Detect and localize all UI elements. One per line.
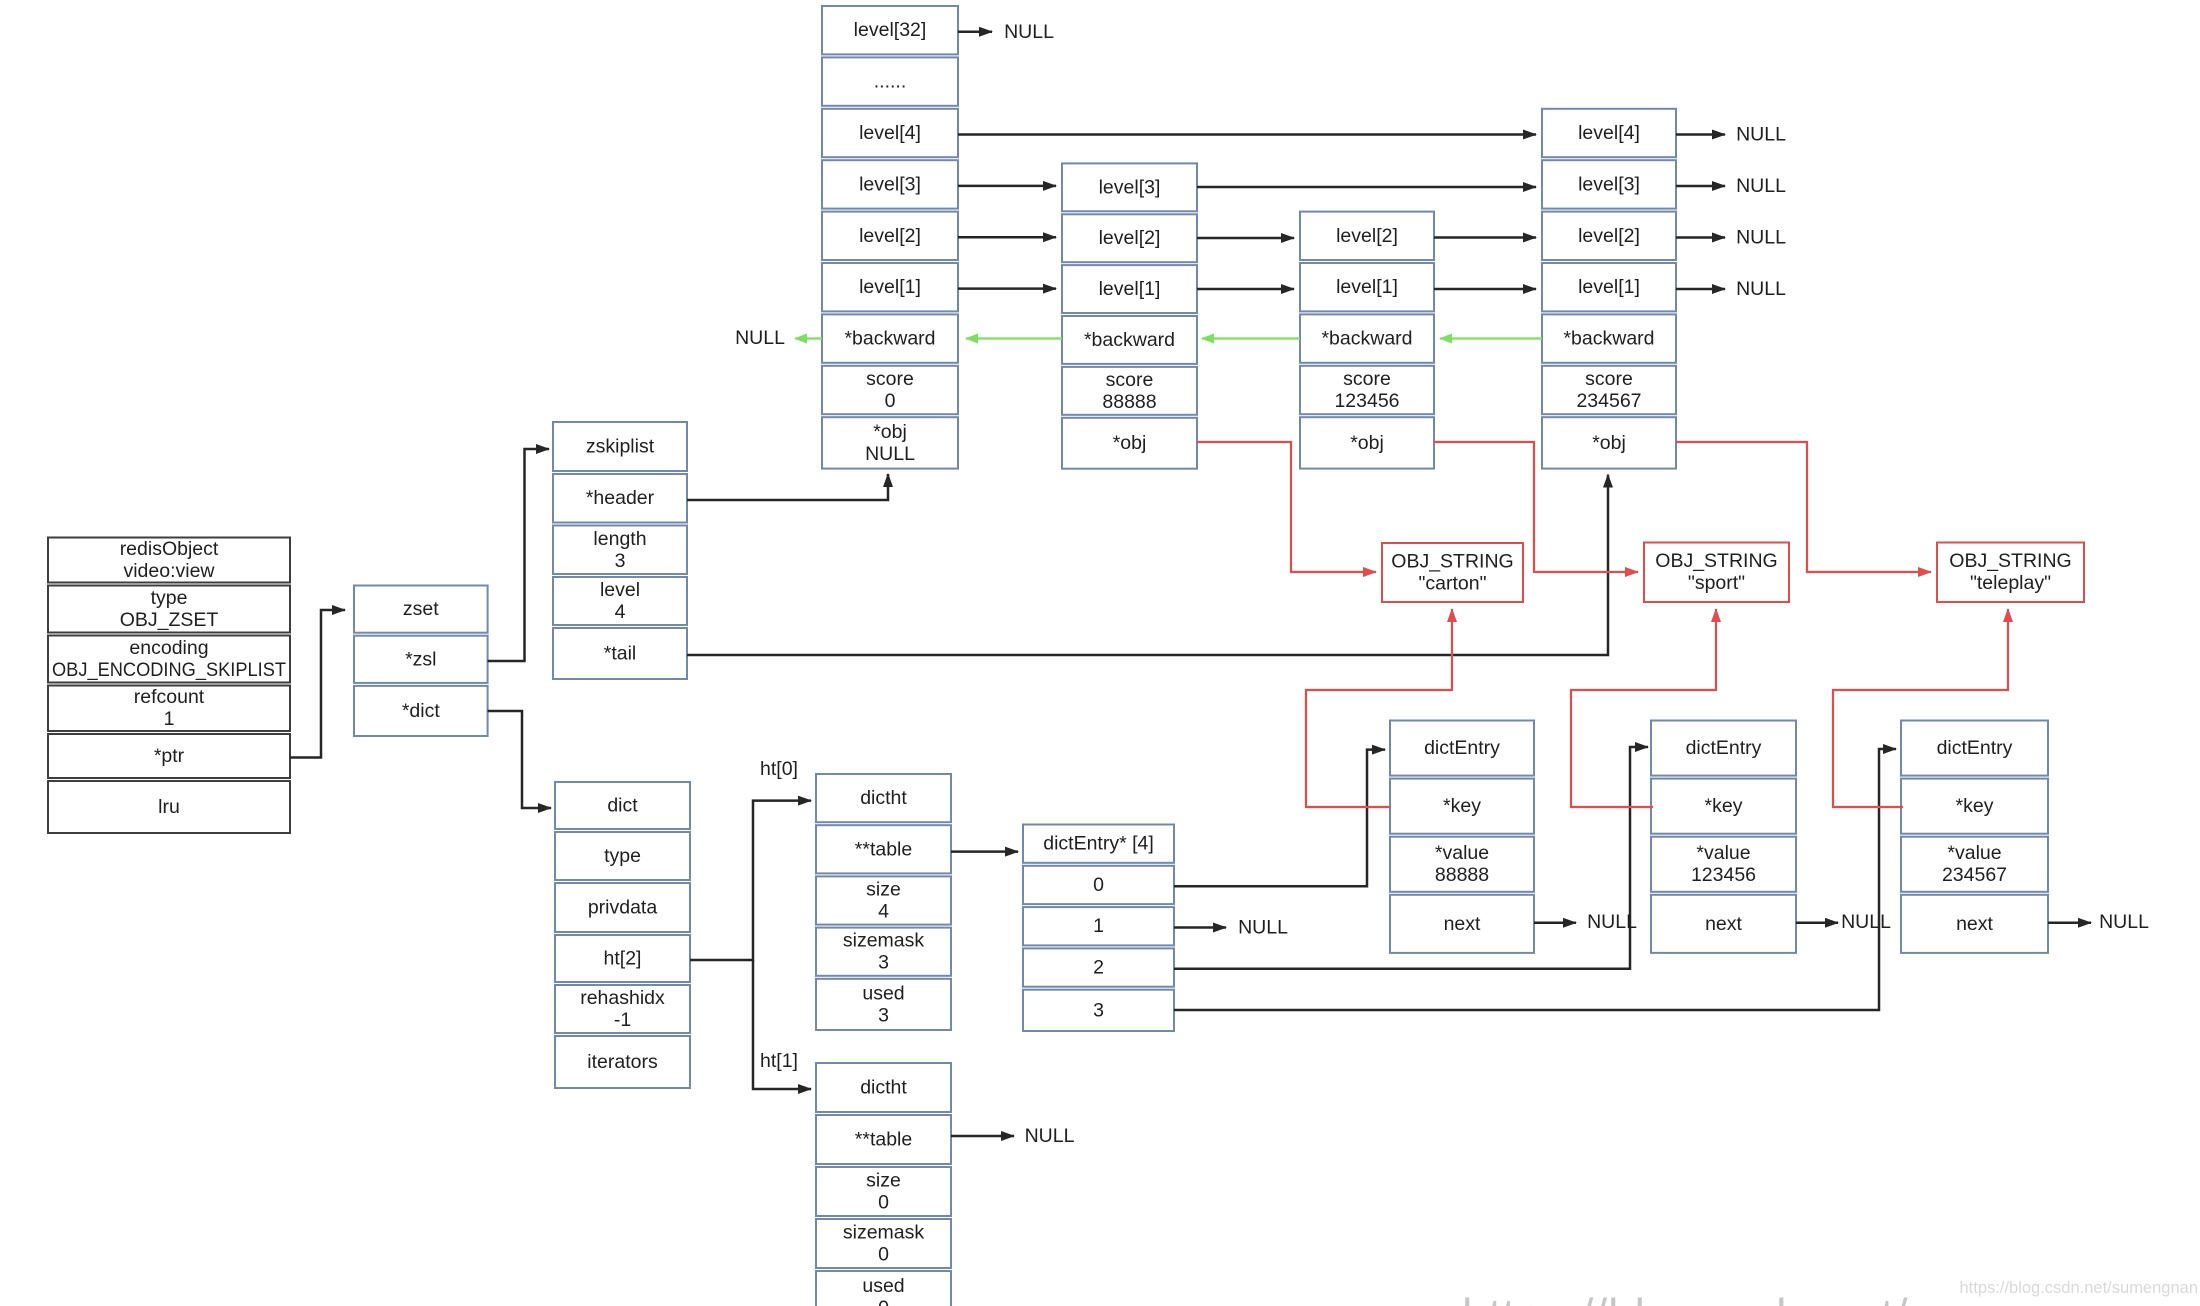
svg-text:zset: zset <box>403 598 439 620</box>
svg-text:OBJ_ZSET: OBJ_ZSET <box>120 609 219 631</box>
dictEntry node 234567 <box>1901 721 2048 953</box>
OBJ_STRING "sport" <box>1644 543 1789 603</box>
OBJ_STRING "carton" <box>1382 543 1523 602</box>
svg-text:*backward: *backward <box>844 328 935 350</box>
wire ht[2] to dictht ht[1] <box>753 960 811 1089</box>
svg-text:level[2]: level[2] <box>859 225 921 247</box>
skiplist node score 234567 <box>1542 109 1676 469</box>
svg-text:level[3]: level[3] <box>1578 173 1640 195</box>
svg-text:**table: **table <box>855 1129 912 1151</box>
svg-text:used: used <box>862 982 904 1004</box>
wire node 88888 level[3] to node 234567 <box>1197 186 1536 189</box>
svg-text:NULL: NULL <box>735 327 785 349</box>
svg-text:3: 3 <box>878 952 889 974</box>
svg-text:"teleplay": "teleplay" <box>1970 572 2051 594</box>
svg-text:https://blog.csdn.net/sumengna: https://blog.csdn.net/sumengnan <box>1462 1289 2158 1306</box>
svg-text:NULL: NULL <box>1025 1125 1075 1147</box>
red wire node 234567 *obj to teleplay <box>1676 442 1931 572</box>
svg-text:rehashidx: rehashidx <box>580 987 665 1009</box>
svg-text:*dict: *dict <box>402 700 441 722</box>
wire bucket 0 to dictEntry 88888 <box>1174 750 1385 887</box>
svg-text:type: type <box>151 587 188 609</box>
svg-text:*obj: *obj <box>1113 432 1147 454</box>
svg-text:level[1]: level[1] <box>1578 276 1640 298</box>
OBJ_STRING "teleplay" <box>1937 543 2084 603</box>
svg-text:4: 4 <box>878 901 889 923</box>
svg-text:dictht: dictht <box>860 1077 907 1099</box>
svg-text:123456: 123456 <box>1334 390 1399 412</box>
wire node 234567 level[3] to NULL <box>1676 185 1725 188</box>
svg-text:"carton": "carton" <box>1418 573 1486 595</box>
red wire dictEntry 88888 *key to carton <box>1306 609 1452 807</box>
svg-text:NULL: NULL <box>2099 911 2149 933</box>
svg-text:*value: *value <box>1947 842 2001 864</box>
green wire header *backward to NULL <box>795 337 822 339</box>
svg-text:*obj: *obj <box>873 421 907 443</box>
wire bucket 1 to NULL <box>1174 926 1226 929</box>
svg-text:score: score <box>1106 369 1154 391</box>
wire next 88888 to NULL <box>1534 922 1576 925</box>
svg-text:dictEntry: dictEntry <box>1937 737 2013 759</box>
svg-text:score: score <box>1585 368 1633 390</box>
wire *zsl to zskiplist <box>488 449 549 661</box>
svg-text:NULL: NULL <box>1736 175 1786 197</box>
struct dict <box>555 782 690 1088</box>
svg-text:iterators: iterators <box>587 1051 658 1073</box>
svg-text:NULL: NULL <box>1736 124 1786 146</box>
svg-text:0: 0 <box>878 1192 889 1214</box>
red wire dictEntry 234567 *key to teleplay <box>1833 609 2008 807</box>
svg-text:88888: 88888 <box>1435 864 1489 886</box>
svg-text:0: 0 <box>885 390 896 412</box>
svg-text:**table: **table <box>855 838 912 860</box>
green wire node 123456 *backward to node 88888 <box>1202 337 1300 339</box>
svg-text:level[3]: level[3] <box>859 173 921 195</box>
svg-text:......: ...... <box>874 71 907 93</box>
skiplist header node <box>822 6 958 469</box>
svg-text:level[3]: level[3] <box>1099 176 1161 198</box>
svg-text:*tail: *tail <box>604 643 637 665</box>
svg-text:NULL: NULL <box>865 443 915 465</box>
svg-text:*backward: *backward <box>1084 329 1175 351</box>
wire ht[2] to dictht ht[0] <box>690 801 811 960</box>
wire *header to header node <box>687 474 888 500</box>
svg-text:0: 0 <box>1093 874 1104 896</box>
skiplist node score 88888 <box>1062 163 1197 468</box>
svg-text:level[2]: level[2] <box>1578 225 1640 247</box>
svg-text:234567: 234567 <box>1942 864 2007 886</box>
svg-text:*backward: *backward <box>1321 328 1412 350</box>
svg-text:*value: *value <box>1435 842 1489 864</box>
wire **table ht[1] to NULL <box>951 1135 1014 1138</box>
svg-text:used: used <box>862 1275 904 1297</box>
svg-text:level[4]: level[4] <box>1578 122 1640 144</box>
svg-text:ht[0]: ht[0] <box>760 758 798 780</box>
wire next 234567 to NULL <box>2048 922 2091 925</box>
struct redisObject (video:view) <box>48 538 290 834</box>
svg-text:score: score <box>866 368 914 390</box>
wire node 123456 level[2] to node 234567 <box>1434 236 1536 239</box>
wire *dict to dict <box>488 711 551 808</box>
green wire node 88888 *backward to header <box>966 337 1062 339</box>
svg-text:NULL: NULL <box>1736 227 1786 249</box>
svg-text:*zsl: *zsl <box>405 648 436 670</box>
wire bucket 3 to dictEntry 234567 <box>1174 749 1896 1010</box>
svg-text:*value: *value <box>1696 842 1750 864</box>
svg-text:*ptr: *ptr <box>154 745 185 767</box>
svg-text:dictEntry: dictEntry <box>1686 737 1762 759</box>
svg-text:size: size <box>866 879 901 901</box>
svg-text:*header: *header <box>586 487 655 509</box>
wire level[32] to NULL <box>958 30 992 33</box>
svg-text:*obj: *obj <box>1350 432 1384 454</box>
svg-text:3: 3 <box>878 1004 889 1026</box>
svg-text:length: length <box>593 528 646 550</box>
svg-text:next: next <box>1956 913 1993 935</box>
svg-text:-1: -1 <box>614 1009 631 1031</box>
svg-text:level[2]: level[2] <box>1336 225 1398 247</box>
svg-text:encoding: encoding <box>129 637 208 659</box>
wire node 234567 level[4] to NULL <box>1676 133 1725 136</box>
svg-text:*key: *key <box>1443 795 1481 817</box>
svg-text:lru: lru <box>158 796 180 818</box>
wire node 123456 level[1] to node 234567 <box>1434 288 1536 291</box>
dictEntry node 88888 <box>1390 721 1534 953</box>
svg-text:123456: 123456 <box>1691 864 1756 886</box>
svg-text:88888: 88888 <box>1102 391 1156 413</box>
wire node 234567 level[2] to NULL <box>1676 236 1725 239</box>
dictEntry node 123456 <box>1651 721 1796 953</box>
svg-text:"sport": "sport" <box>1688 572 1745 594</box>
wire bucket 2 to dictEntry 123456 <box>1174 747 1648 969</box>
wire header level[4] to node 234567 <box>958 133 1536 136</box>
svg-text:type: type <box>604 845 641 867</box>
svg-text:dictEntry: dictEntry <box>1424 737 1500 759</box>
svg-text:score: score <box>1343 368 1391 390</box>
wire node 234567 level[1] to NULL <box>1676 288 1725 291</box>
array dictEntry* [4] <box>1023 825 1174 1032</box>
svg-text:level: level <box>600 579 640 601</box>
wire next 123456 to NULL <box>1796 922 1838 925</box>
svg-text:OBJ_STRING: OBJ_STRING <box>1655 550 1777 572</box>
red wire node 88888 *obj to carton <box>1197 442 1376 572</box>
svg-text:3: 3 <box>615 550 626 572</box>
svg-text:1: 1 <box>1093 915 1104 937</box>
red wire dictEntry 123456 *key to sport <box>1571 609 1716 807</box>
svg-text:NULL: NULL <box>1587 911 1637 933</box>
red wire node 123456 *obj to sport <box>1434 442 1638 572</box>
svg-text:dictht: dictht <box>860 787 907 809</box>
wire *tail to node 234567 <box>687 475 1608 655</box>
svg-text:2: 2 <box>1093 957 1104 979</box>
struct dictht ht[0] <box>816 774 951 1030</box>
wire *ptr to zset <box>290 610 345 758</box>
svg-text:NULL: NULL <box>1004 21 1054 43</box>
svg-text:234567: 234567 <box>1576 390 1641 412</box>
svg-text:sizemask: sizemask <box>843 930 925 952</box>
svg-text:refcount: refcount <box>134 686 205 708</box>
svg-text:ht[2]: ht[2] <box>604 948 642 970</box>
svg-text:sizemask: sizemask <box>843 1222 925 1244</box>
svg-text:4: 4 <box>615 601 626 623</box>
svg-text:level[1]: level[1] <box>1336 276 1398 298</box>
svg-text:*obj: *obj <box>1592 432 1626 454</box>
svg-text:*key: *key <box>1705 795 1743 817</box>
svg-text:0: 0 <box>878 1297 889 1306</box>
svg-text:zskiplist: zskiplist <box>586 436 655 458</box>
svg-text:level[1]: level[1] <box>1099 278 1161 300</box>
wire header level[3] to node 88888 <box>958 185 1056 188</box>
wire header level[1] to node 88888 <box>958 287 1056 290</box>
wire node 88888 level[1] to node 123456 <box>1197 288 1294 291</box>
svg-text:*backward: *backward <box>1563 328 1654 350</box>
struct zset <box>354 586 488 737</box>
wire header level[2] to node 88888 <box>958 236 1056 239</box>
svg-text:OBJ_ENCODING_SKIPLIST: OBJ_ENCODING_SKIPLIST <box>52 659 286 681</box>
svg-text:dictEntry* [4]: dictEntry* [4] <box>1043 833 1154 855</box>
svg-text:*key: *key <box>1956 795 1994 817</box>
svg-text:NULL: NULL <box>1238 917 1288 939</box>
svg-text:level[2]: level[2] <box>1099 227 1161 249</box>
svg-text:OBJ_STRING: OBJ_STRING <box>1949 550 2071 572</box>
wire node 88888 level[2] to node 123456 <box>1197 237 1294 240</box>
svg-text:level[32]: level[32] <box>854 19 927 41</box>
svg-text:video:view: video:view <box>123 560 215 582</box>
svg-text:next: next <box>1705 913 1742 935</box>
svg-text:NULL: NULL <box>1841 911 1891 933</box>
svg-text:dict: dict <box>607 795 638 817</box>
struct dictht ht[1] <box>816 1063 951 1306</box>
svg-text:redisObject: redisObject <box>120 538 219 560</box>
svg-text:level[4]: level[4] <box>859 122 921 144</box>
svg-text:0: 0 <box>878 1244 889 1266</box>
svg-text:NULL: NULL <box>1736 278 1786 300</box>
svg-text:3: 3 <box>1093 999 1104 1021</box>
green wire node 234567 *backward to node 123456 <box>1440 337 1542 339</box>
svg-text:privdata: privdata <box>588 897 658 919</box>
skiplist node score 123456 <box>1300 212 1434 469</box>
svg-text:OBJ_STRING: OBJ_STRING <box>1391 551 1513 573</box>
svg-text:level[1]: level[1] <box>859 276 921 298</box>
svg-text:1: 1 <box>164 708 175 730</box>
svg-text:size: size <box>866 1170 901 1192</box>
svg-text:next: next <box>1444 913 1481 935</box>
svg-text:ht[1]: ht[1] <box>760 1050 798 1072</box>
struct zskiplist <box>553 422 687 679</box>
wire **table to dictEntry*[4] <box>951 850 1018 853</box>
